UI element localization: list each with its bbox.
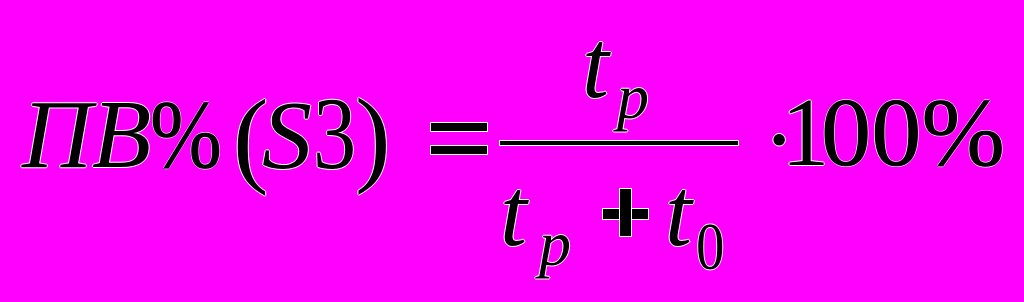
digit 3 xyxy=(313,133,356,135)
denominator subscript p xyxy=(539,243,571,245)
digit 1 of 100% xyxy=(781,132,830,134)
multiplication dot xyxy=(763,139,795,141)
numerator t xyxy=(582,64,609,66)
letter S xyxy=(262,135,312,137)
denominator t xyxy=(500,212,527,214)
equals sign top bar xyxy=(431,123,487,131)
open parenthesis xyxy=(233,137,269,139)
numerator subscript p xyxy=(617,96,649,98)
plus sign vertical bar xyxy=(620,189,631,236)
denominator subscript 0 xyxy=(696,246,724,248)
close parenthesis xyxy=(355,136,391,138)
equals sign bottom bar xyxy=(431,146,487,154)
00% of 100% xyxy=(821,132,1005,134)
denominator t2 xyxy=(665,212,692,214)
percent sign xyxy=(150,134,222,136)
fraction bar xyxy=(500,141,738,145)
plus sign horizontal bar xyxy=(603,209,648,219)
LHS letters ПВ xyxy=(22,134,151,136)
